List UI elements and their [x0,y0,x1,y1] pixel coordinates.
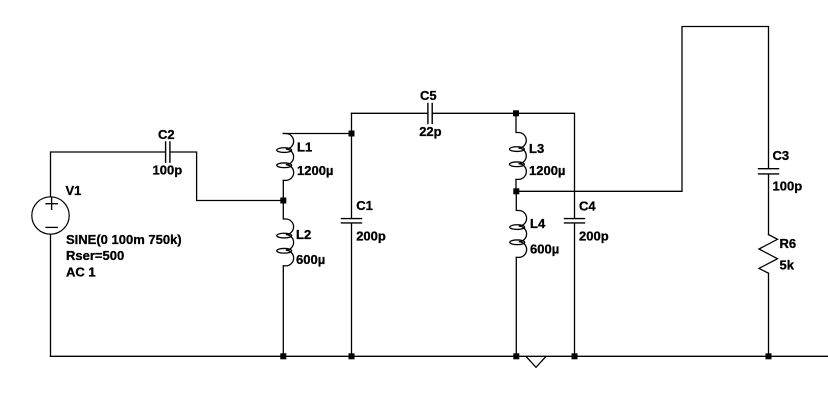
node B junction dot [513,188,519,194]
wire V1 bottom to ground rail [50,234,52,356]
svg-text:5k: 5k [780,258,795,273]
inductor L3 [509,113,526,179]
svg-text:C4: C4 [579,198,596,213]
wire C4 bottom to rail [574,223,576,356]
svg-text:L1: L1 [297,140,312,155]
wire C3 bottom to R6 top [768,174,770,234]
wire C1 column: top rail down to C1 top plate [351,113,353,218]
svg-text:22p: 22p [419,124,441,139]
svg-text:1200µ: 1200µ [297,163,333,178]
svg-text:100p: 100p [153,163,183,178]
capacitor C2 [166,142,170,162]
junction dot R6/rail [766,353,772,359]
svg-text:C1: C1 [356,198,373,213]
svg-text:600µ: 600µ [530,242,559,257]
wire R6 bottom to rail [768,273,770,356]
svg-text:AC 1: AC 1 [66,264,96,279]
inductor L4 [510,191,527,257]
wire L3 bottom to node B [515,179,517,191]
svg-text:L3: L3 [529,141,544,156]
wire V1 top to C2 left [51,152,166,197]
svg-text:Rser=500: Rser=500 [66,248,124,263]
wire L4 bottom to rail [515,257,517,356]
wire C2 right, down, to node A [170,152,283,201]
junction dot L3 top [513,110,519,116]
svg-text:1200µ: 1200µ [529,163,565,178]
svg-text:SINE(0 100m 750k): SINE(0 100m 750k) [66,232,182,247]
svg-text:L2: L2 [296,227,311,242]
junction dot at C1 column / L1 wire [349,131,355,137]
svg-text:200p: 200p [579,229,609,244]
capacitor C1 [342,219,362,223]
svg-text:C2: C2 [158,127,175,142]
svg-text:L4: L4 [530,216,546,231]
svg-text:200p: 200p [356,229,386,244]
ground rail [51,355,828,357]
inductor L2 [277,201,294,266]
junction dot L2/rail [280,353,286,359]
wire L1 top to C1 column [283,133,351,135]
resistor R6 [759,235,778,274]
wire L2 bottom to rail [282,266,284,356]
svg-text:R6: R6 [780,236,797,251]
svg-text:600µ: 600µ [296,252,325,267]
svg-text:100p: 100p [773,179,803,194]
svg-text:C3: C3 [773,148,790,163]
capacitor C5 [428,103,432,123]
svg-text:C5: C5 [420,88,437,103]
top rail right of C5 to C4 column [433,113,575,218]
wire node B to right riser [516,27,768,192]
top rail left of C5 [352,112,428,114]
junction dot L4/rail [513,353,519,359]
capacitor C4 [565,219,585,223]
svg-text:V1: V1 [66,183,82,198]
V1 plus sign [46,198,57,209]
junction dot C4/rail [572,353,578,359]
inductor L1 [277,134,294,181]
ground symbol [527,357,546,367]
wire C1 bottom to rail [351,223,353,356]
node A junction dot [280,198,286,204]
junction dot C1/rail [349,353,355,359]
wire L1 bottom to node A [282,180,284,200]
voltage source V1 [32,197,69,234]
V1 minus sign [46,226,57,228]
capacitor C3 [759,169,779,174]
